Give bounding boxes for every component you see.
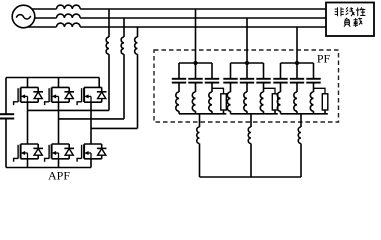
inductor Lg3 (branch 3 grounding inductor) — [298, 127, 301, 144]
inductor L12 — [192, 92, 195, 111]
wire branch 3 exit lower — [300, 144, 302, 178]
capacitor C21 — [223, 79, 237, 83]
wire APF DC bus bottom rail — [6, 167, 91, 169]
wire branch 3 mid stub 1 — [280, 84, 282, 93]
wire branch 2 cap stub 1 — [230, 63, 232, 78]
wire drain stub upper leg 3 — [98, 78, 100, 88]
wire branch 2 low stub 3 — [263, 111, 265, 114]
ac source G — [12, 5, 35, 28]
inductor L33 — [310, 92, 313, 111]
load label line1 非 — [335, 7, 344, 16]
wire leg 1 midpoint — [27, 102, 29, 144]
load label line2 载 — [353, 18, 362, 27]
wire branch 1 exit lower — [199, 144, 201, 178]
inductor L32 — [294, 92, 297, 111]
capacitor C32 — [290, 79, 304, 83]
inductor Lb (APF link inductor B) — [121, 37, 124, 54]
wire phase C — [24, 26, 327, 28]
wire branch 3 low stub 2 — [296, 111, 298, 114]
wire branch 1 resistor bottom — [223, 110, 225, 114]
wire branch 3 mid stub 2 — [296, 84, 298, 93]
wire branch 3 cap stub 2 — [296, 63, 298, 78]
wire APF tap C — [137, 27, 139, 128]
wire drain stub upper leg 1 — [27, 78, 29, 88]
wire PF branch 3 tap — [296, 27, 298, 63]
capacitor C31 — [273, 79, 287, 83]
wire branch 2 low stub 2 — [246, 111, 248, 114]
inductor L22 — [244, 92, 247, 111]
wire branch 3 exit — [300, 114, 302, 127]
svg-text:APF: APF — [48, 169, 70, 183]
wire branch 1 low stub 1 — [178, 111, 180, 114]
wire APF phase A link — [28, 109, 110, 111]
wire branch 2 mid stub 1 — [230, 84, 232, 93]
wire branch 2 top bus — [231, 62, 264, 64]
inductor L23 — [260, 92, 263, 111]
wire leg 2 midpoint — [58, 102, 60, 144]
load label line1 性 — [356, 7, 365, 16]
wire branch 3 top bus — [281, 62, 314, 64]
node branch 3 junction — [295, 61, 299, 65]
wire branch 3 low stub 1 — [280, 111, 282, 114]
load label line2 负 — [344, 18, 350, 27]
wire branch 2 exit — [250, 114, 252, 127]
wire source stub lower leg 2 — [58, 159, 60, 168]
wire APF tap B — [123, 18, 125, 119]
wire PF neutral bus — [200, 176, 302, 178]
nonlinear load box — [326, 3, 374, 37]
wire branch 2 resistor bottom — [274, 110, 276, 114]
transistor Q6 (lower) — [77, 144, 106, 162]
wire branch 2 mid stub 3 — [263, 84, 265, 93]
inductor Lg2 (branch 2 grounding inductor) — [248, 127, 251, 144]
wire branch 3 cap stub 3 — [313, 63, 315, 78]
inductor Ls2 (phase B source inductor) — [57, 14, 81, 18]
wire PF branch 2 tap — [246, 18, 248, 63]
label APF — [48, 169, 70, 183]
transistor Q2 (lower) — [14, 144, 43, 162]
wire branch 1 low stub 3 — [211, 111, 213, 114]
wire source stub lower leg 1 — [27, 159, 29, 168]
wire branch 1 mid stub 1 — [178, 84, 180, 93]
inductor Lg1 (branch 1 grounding inductor) — [197, 127, 200, 144]
wire branch 3 resistor bottom — [324, 110, 326, 114]
node branch 1 junction — [193, 61, 197, 65]
wire branch 3 resistor link — [314, 88, 326, 94]
wire branch 3 bottom bus — [281, 113, 328, 115]
wire leg 3 midpoint — [90, 102, 92, 144]
wire phase B — [24, 17, 327, 19]
wire branch 1 cap stub 3 — [211, 63, 213, 78]
transistor Q5 (upper) — [77, 87, 106, 105]
wire PF branch 1 tap — [195, 9, 197, 63]
resistor R1 — [221, 94, 227, 110]
load label line1 线 — [346, 7, 355, 16]
inductor Ls3 (phase C source inductor) — [57, 23, 81, 27]
inductor L13 — [209, 92, 212, 111]
PF dashed box — [154, 50, 339, 122]
wire APF DC left rail — [5, 78, 7, 168]
resistor R2 — [272, 94, 278, 110]
wire branch 2 mid stub 2 — [246, 84, 248, 93]
capacitor C22 — [240, 79, 254, 83]
wire branch 1 cap stub 2 — [195, 63, 197, 78]
wire branch 1 top bus — [179, 62, 212, 64]
wire branch 1 exit — [199, 114, 201, 127]
wire branch 3 cap stub 1 — [280, 63, 282, 78]
wire APF DC bus top rail — [6, 77, 99, 79]
wire branch 3 mid stub 3 — [313, 84, 315, 93]
capacitor Cdc (APF dc-link) — [0, 114, 14, 118]
wire branch 1 mid stub 3 — [211, 84, 213, 93]
wire branch 1 cap stub 1 — [178, 63, 180, 78]
wire branch 2 exit lower — [250, 144, 252, 178]
inductor L11 — [176, 92, 179, 111]
transistor Q3 (upper) — [45, 87, 74, 105]
label PF — [317, 52, 331, 66]
wire APF phase C link — [91, 127, 138, 129]
inductor La (APF link inductor A) — [106, 37, 109, 54]
capacitor C13 — [205, 79, 219, 83]
wire branch 2 low stub 1 — [230, 111, 232, 114]
capacitor C23 — [256, 79, 270, 83]
wire branch 1 resistor link — [212, 88, 224, 94]
inductor L31 — [277, 92, 280, 111]
transistor Q4 (lower) — [45, 144, 74, 162]
svg-text:PF: PF — [317, 52, 331, 66]
wire APF tap A — [108, 9, 110, 110]
wire phase A — [24, 8, 327, 10]
capacitor C11 — [172, 79, 186, 83]
wire source stub lower leg 3 — [90, 159, 92, 168]
wire branch 1 mid stub 2 — [195, 84, 197, 93]
transistor Q1 (upper) — [14, 87, 43, 105]
inductor L21 — [227, 92, 230, 111]
capacitor C33 — [306, 79, 320, 83]
wire APF phase B link — [59, 118, 125, 120]
wire branch 3 low stub 3 — [313, 111, 315, 114]
inductor Ls1 (phase A source inductor) — [57, 5, 81, 9]
inductor Lc (APF link inductor C) — [135, 37, 138, 54]
wire branch 2 cap stub 3 — [263, 63, 265, 78]
wire drain stub upper leg 2 — [58, 78, 60, 88]
resistor R3 — [322, 94, 328, 110]
wire branch 2 bottom bus — [231, 113, 278, 115]
wire branch 1 low stub 2 — [195, 111, 197, 114]
node branch 2 junction — [245, 61, 249, 65]
wire branch 2 cap stub 2 — [246, 63, 248, 78]
capacitor C12 — [188, 79, 202, 83]
wire branch 1 bottom bus — [179, 113, 226, 115]
wire branch 2 resistor link — [264, 88, 276, 94]
